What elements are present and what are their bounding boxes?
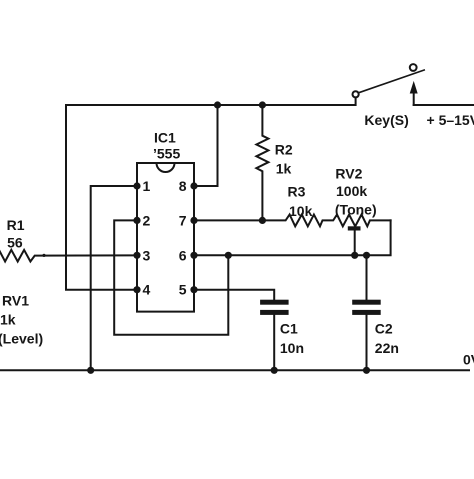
svg-text:100k: 100k: [336, 183, 367, 199]
svg-text:1k: 1k: [276, 161, 292, 177]
svg-text:C2: C2: [375, 321, 393, 337]
svg-text:(Tone): (Tone): [335, 202, 377, 218]
svg-text:RV2: RV2: [335, 165, 362, 181]
svg-text:4: 4: [143, 282, 151, 298]
svg-text:56: 56: [7, 235, 23, 251]
svg-text:’555: ’555: [153, 146, 180, 162]
svg-text:10n: 10n: [280, 340, 304, 356]
svg-text:3: 3: [143, 247, 151, 263]
svg-text:RV1: RV1: [2, 293, 29, 309]
svg-text:2: 2: [143, 212, 151, 228]
svg-text:C1: C1: [280, 321, 298, 337]
svg-text:R2: R2: [275, 142, 293, 158]
svg-text:R3: R3: [288, 184, 306, 200]
svg-text:(Level): (Level): [0, 330, 43, 346]
svg-text:R1: R1: [7, 217, 25, 233]
svg-text:1k: 1k: [0, 311, 16, 327]
svg-text:7: 7: [179, 212, 187, 228]
svg-text:10k: 10k: [289, 203, 313, 219]
svg-text:1: 1: [143, 178, 151, 194]
svg-text:Key(S): Key(S): [364, 112, 408, 128]
svg-text:22n: 22n: [375, 340, 399, 356]
svg-text:IC1: IC1: [154, 129, 176, 145]
svg-text:5: 5: [179, 282, 187, 298]
svg-text:0V: 0V: [463, 352, 474, 368]
svg-text:8: 8: [179, 178, 187, 194]
svg-text:6: 6: [179, 247, 187, 263]
svg-text:+ 5–15V: + 5–15V: [427, 112, 474, 128]
